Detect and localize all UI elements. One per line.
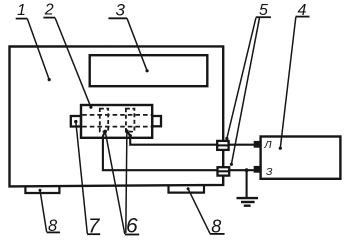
bend dot on upper wire	[129, 134, 132, 137]
leader 8 left	[40, 190, 47, 232]
svg-text:3: 3	[115, 1, 125, 20]
dashed guide line lower	[82, 126, 151, 128]
winding right (item 6)	[126, 109, 134, 132]
leader 5a to upper feedthrough	[227, 18, 256, 138]
terminal dot right winding	[125, 129, 129, 133]
display window (item 3)	[90, 55, 208, 86]
pin Л (upper, filled)	[254, 141, 261, 148]
upper feedthrough connector (item 5)	[217, 141, 228, 150]
right foot (item 8)	[169, 185, 205, 192]
svg-text:2: 2	[44, 2, 54, 19]
leader 2	[55, 18, 91, 108]
dot on left foot	[39, 189, 42, 192]
ground wire	[246, 170, 248, 198]
leader 5b to lower feedthrough	[231, 18, 259, 165]
right tab	[152, 116, 161, 126]
sensor block (item 2)	[81, 105, 152, 138]
wire: left winding to lower feedthrough and pin	[103, 131, 255, 170]
leader 3	[127, 18, 147, 71]
unit box (item 4)	[261, 137, 341, 179]
leader 6a from left winding	[105, 131, 125, 234]
dot on right foot	[187, 187, 190, 190]
svg-text:Л: Л	[263, 139, 272, 151]
leader 8 right	[188, 189, 210, 234]
leader 6b from right winding	[126, 131, 127, 233]
winding left (item 6)	[100, 109, 108, 132]
junction dot on lower wire	[245, 168, 249, 172]
svg-text:З: З	[266, 166, 273, 178]
svg-text:1: 1	[17, 2, 26, 19]
leader 4	[280, 17, 296, 148]
dot in left tab	[74, 120, 77, 123]
dashed guide line upper	[82, 114, 151, 116]
leader 7	[76, 122, 88, 234]
left foot (item 8)	[25, 186, 59, 193]
leader 1	[27, 19, 49, 80]
main enclosure box (item 1)	[10, 46, 224, 186]
ground symbol	[237, 197, 259, 199]
wire: right winding to upper feedthrough and pin	[127, 131, 255, 145]
pin З (lower, filled)	[254, 166, 261, 173]
terminal dot left winding	[103, 130, 107, 134]
lower feedthrough connector (item 5)	[218, 167, 230, 175]
left tab (item 7)	[71, 116, 81, 127]
